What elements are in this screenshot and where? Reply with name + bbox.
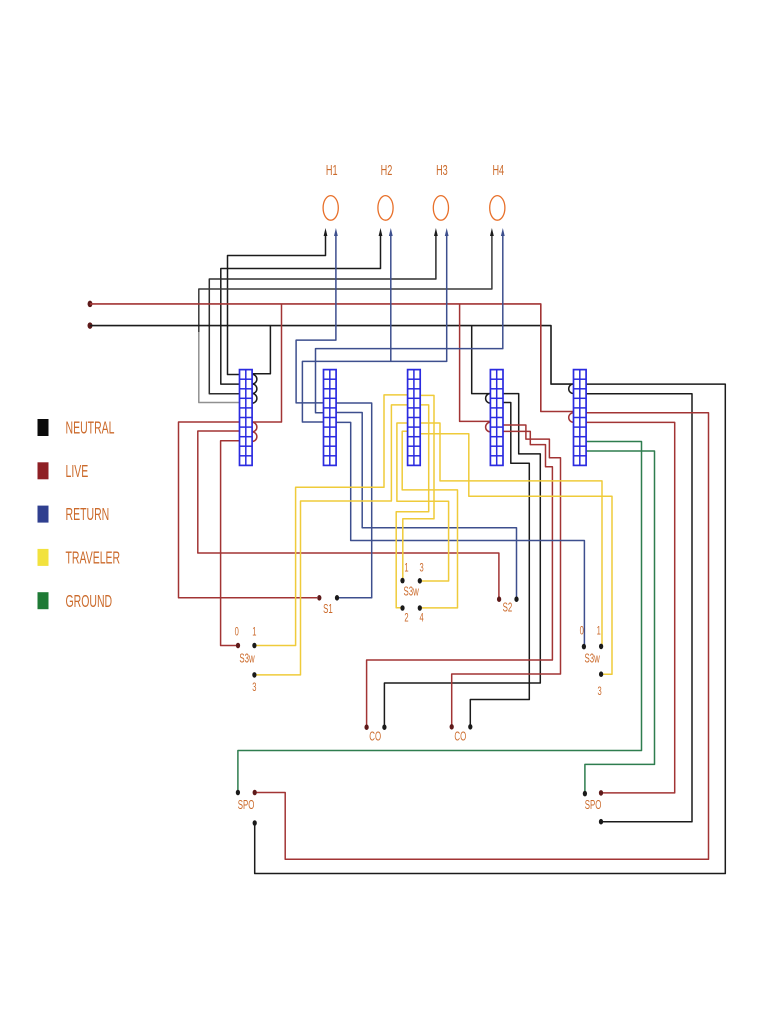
wire live TB1 row8 to S3wL-0: [221, 441, 240, 646]
jumper TB4 rows3-4: [486, 394, 491, 404]
wire live bus branch to TB1 row6 right: [252, 304, 281, 422]
wire live bus branch to TB4 row6 left: [460, 304, 491, 422]
terminal S2 live: [497, 596, 501, 602]
terminal S3wM 1: [400, 578, 404, 584]
terminal S3wL 1: [252, 643, 256, 649]
svg-text:1: 1: [252, 626, 257, 639]
legend swatch NEUTRAL: [38, 419, 49, 436]
terminal strip TB2: [324, 370, 337, 466]
lamp H2: [378, 196, 393, 221]
svg-text:0: 0: [235, 626, 240, 639]
terminal S2 return: [514, 596, 518, 602]
terminal strip TB5: [574, 370, 587, 466]
arrow return terminal H2: [389, 228, 393, 236]
wire traveler S3wL-3 to TB3 row4 left: [256, 405, 408, 675]
wire traveler TB3 row7 right to S3wR-3: [420, 434, 612, 675]
jumper TB5 rows2-3: [569, 384, 574, 394]
svg-text:GROUND: GROUND: [66, 592, 113, 611]
terminal S3wL 0: [236, 643, 240, 649]
svg-text:S2: S2: [503, 602, 513, 615]
terminal S3wM 2: [400, 605, 404, 611]
arrow neutral terminal H4: [490, 228, 494, 236]
wire neutral bus branch to TB4 row3 left: [472, 326, 491, 394]
wire return H1 lead to TB2 row4: [296, 236, 336, 403]
wire neutral bus branch to TB1 row1 right: [252, 326, 270, 374]
svg-text:H3: H3: [436, 162, 448, 179]
wire traveler TB3 row6 right to S3wR-1: [420, 423, 602, 645]
wire live TB5 row6 to SPO2: [586, 422, 675, 793]
wire neutral TB5 row3 to SPO2: [586, 394, 692, 822]
wire ground TB5 row9 to SPO2: [585, 451, 655, 791]
wire neutral TB4 row4 to CO2: [470, 403, 529, 725]
svg-text:H1: H1: [326, 162, 338, 179]
jumper TB1 rows7-8: [252, 432, 257, 442]
wire traveler TB3 row6 left to S3wM-3: [397, 423, 449, 581]
terminal SPO2 neutral: [599, 819, 603, 825]
svg-text:3: 3: [252, 682, 257, 695]
wire traveler TB3 row7 left to S3wM-4: [402, 431, 457, 608]
wire return TB2 row6 to S3wR-0: [336, 422, 584, 644]
wire neutral H4 lead lower to TB1 row4: [199, 332, 240, 403]
wire neutral H4 lead upper: [199, 236, 492, 332]
wire return H4 lead to TB2 row5: [316, 236, 503, 413]
wire neutral H3 lead to TB1 row3: [209, 236, 436, 394]
terminal SPO1 neutral: [253, 820, 257, 826]
wire neutral TB4 row3 to CO1: [384, 394, 540, 725]
arrow return terminal H4: [501, 228, 505, 236]
wire return H3 lead to TB2 row6: [302, 236, 446, 422]
wire traveler TB3 row3 right to S3wM-1: [403, 395, 434, 578]
lamp H3: [433, 196, 448, 221]
svg-text:2: 2: [404, 612, 409, 625]
terminal CO1 neutral: [382, 724, 386, 730]
svg-text:S3w: S3w: [585, 653, 601, 666]
legend swatch LIVE: [38, 462, 49, 479]
wire traveler S3wL-1 to TB3 row3 left: [256, 395, 408, 646]
wire traveler TB3 row4 right to S3wM-2: [396, 405, 429, 608]
svg-text:CO: CO: [454, 731, 466, 744]
svg-text:1: 1: [404, 562, 409, 575]
svg-text:H4: H4: [492, 162, 504, 179]
jumper TB1 rows3-4: [252, 394, 257, 404]
wire live TB1 row7 to S2: [198, 431, 499, 597]
terminal S3wR 1: [599, 644, 603, 650]
jumper TB5 rows5-6: [569, 413, 574, 423]
terminal CO2 live: [450, 724, 454, 730]
wire live TB4 row7 to CO1: [367, 431, 553, 725]
arrow neutral terminal H1: [324, 228, 328, 236]
svg-text:LIVE: LIVE: [66, 462, 89, 481]
arrow return terminal H3: [445, 228, 449, 236]
lamp H1: [323, 196, 338, 221]
svg-text:H2: H2: [381, 162, 393, 179]
wire live TB5 row5 to SPO1: [257, 413, 709, 860]
svg-text:RETURN: RETURN: [66, 506, 110, 525]
terminal SPO2 ground: [583, 791, 587, 797]
svg-text:CO: CO: [369, 731, 381, 744]
wire live bus: [90, 304, 574, 412]
svg-text:NEUTRAL: NEUTRAL: [66, 419, 115, 438]
terminal SPO1 live: [253, 790, 257, 796]
legend swatch RETURN: [38, 506, 49, 523]
wire neutral H1 lead to TB1 row1: [228, 236, 326, 375]
terminal S1 return: [335, 595, 339, 601]
svg-text:SPO: SPO: [238, 799, 255, 812]
svg-text:4: 4: [419, 612, 424, 625]
terminal SPO1 ground: [236, 790, 240, 796]
svg-text:SPO: SPO: [585, 800, 602, 813]
jumper TB1 rows6-7: [252, 422, 257, 432]
lamp H4: [490, 196, 505, 221]
terminal S1 live: [317, 595, 321, 601]
wire return TB2 row4 to S1: [336, 403, 372, 598]
wire live TB4 row6 to CO2: [452, 425, 561, 725]
wire ground TB5 row8 to SPO1: [238, 442, 642, 791]
jumper TB4 rows6-7: [486, 422, 491, 432]
terminal strip TB3: [408, 370, 421, 466]
svg-text:S3w: S3w: [404, 586, 420, 599]
legend swatch GROUND: [38, 592, 49, 609]
wire neutral TB5 row2 to SPO1: [255, 384, 726, 873]
svg-text:1: 1: [597, 625, 602, 638]
svg-text:3: 3: [419, 562, 424, 575]
terminal SPO2 live: [599, 790, 603, 796]
wire neutral bus: [90, 326, 574, 385]
svg-text:S3w: S3w: [239, 653, 255, 666]
jumper TB1 rows2-3: [252, 384, 257, 394]
jumper TB1 rows1-2: [252, 374, 257, 384]
wire neutral H2 lead to TB1 row2: [221, 236, 381, 384]
arrow neutral terminal H2: [379, 228, 383, 236]
terminal CO1 live: [364, 724, 368, 730]
svg-text:S1: S1: [323, 603, 333, 616]
node neutral feed: [88, 322, 93, 328]
wire return TB2 row5 to S2: [336, 413, 516, 598]
terminal CO2 neutral: [468, 724, 472, 730]
terminal S3wL 3: [252, 672, 256, 678]
svg-text:0: 0: [580, 625, 585, 638]
wire live TB1 row6 to S1: [179, 422, 318, 598]
terminal S3wM 4: [418, 605, 422, 611]
node live feed: [88, 301, 93, 307]
svg-text:TRAVELER: TRAVELER: [66, 549, 121, 568]
legend swatch TRAVELER: [38, 549, 49, 566]
terminal S3wM 3: [418, 578, 422, 584]
arrow return terminal H1: [334, 228, 338, 236]
terminal strip TB1: [240, 370, 253, 466]
terminal strip TB4: [490, 370, 503, 466]
wire return H2 lead tee: [390, 236, 392, 361]
arrow neutral terminal H3: [434, 228, 438, 236]
terminal S3wR 0: [582, 644, 586, 650]
svg-text:3: 3: [597, 686, 602, 699]
terminal S3wR 3: [599, 671, 603, 677]
